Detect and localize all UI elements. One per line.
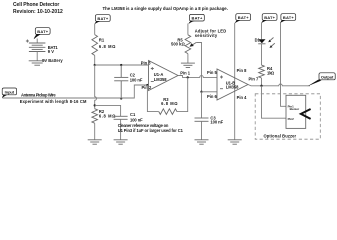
wire node A to Pin 3 — [95, 64, 149, 66]
svg-text:Antenna Pickup Wire: Antenna Pickup Wire — [21, 93, 56, 98]
buzzer BZ1 — [286, 95, 311, 128]
resistor R3 — [159, 109, 177, 115]
ground (C3) — [195, 140, 209, 144]
ground (R5) — [181, 63, 195, 67]
svg-text:1 kΩ: 1 kΩ — [267, 70, 275, 75]
junction C2 top — [120, 64, 122, 66]
svg-text:BAT+: BAT+ — [238, 15, 249, 20]
svg-text:Input: Input — [5, 89, 15, 94]
power flag BAT+ (R5) — [189, 14, 205, 24]
svg-text:LM358: LM358 — [154, 77, 167, 82]
svg-text:Pin 7: Pin 7 — [249, 76, 260, 81]
wire bias column with hop over antenna wire — [95, 65, 97, 109]
svg-text:BAT+: BAT+ — [264, 15, 275, 20]
op-amp U1-B — [217, 69, 248, 100]
R5 wiper arrow — [192, 43, 196, 46]
resistor R4 — [259, 65, 265, 78]
power flag BAT+ (R1) — [95, 15, 111, 25]
dashed box optional buzzer — [255, 94, 320, 139]
svg-text:BAT+: BAT+ — [283, 15, 294, 20]
wire R2 to ground — [94, 123, 96, 140]
node A junction — [94, 64, 96, 66]
junction wiper / Pin 6 — [200, 91, 202, 93]
svg-text:100 nF: 100 nF — [130, 117, 143, 122]
wire output node to buzzer Pin2 — [262, 86, 287, 118]
wire C3 to ground — [201, 121, 203, 140]
wire U1-B output with hop over BAT+ column — [248, 84, 310, 86]
battery plus sign — [26, 40, 29, 43]
svg-text:Output: Output — [321, 74, 334, 79]
svg-text:Buzzer: Buzzer — [290, 107, 300, 111]
svg-text:sensitivity: sensitivity — [195, 33, 218, 38]
wire U1-A output with hop over wiper wire — [178, 76, 217, 78]
svg-text:6.8 MΩ: 6.8 MΩ — [161, 101, 178, 106]
svg-text:100 nF: 100 nF — [210, 120, 223, 125]
wire BAT+ to R1 — [94, 24, 96, 35]
svg-text:D1: D1 — [255, 37, 261, 42]
wire R5 to ground — [187, 54, 189, 64]
wire BAT+ to battery — [36, 39, 38, 44]
wire pin 8 / pin 4 power column — [234, 23, 236, 140]
wire to C3 — [201, 92, 203, 118]
svg-text:R1: R1 — [99, 38, 105, 43]
wire C1 to ground — [120, 119, 122, 140]
wire R1 to node A — [94, 55, 96, 65]
svg-text:6.8 MΩ: 6.8 MΩ — [99, 113, 116, 118]
wire battery to ground — [36, 52, 38, 61]
output flag — [308, 73, 336, 86]
feedback wire right — [177, 77, 188, 111]
wire BAT+ to R5 — [187, 24, 189, 35]
wiper wire to Pin 6 — [196, 43, 201, 92]
ground (battery) — [29, 61, 46, 65]
capacitor C1 — [114, 116, 128, 119]
svg-text:Revision: 10-10-2012: Revision: 10-10-2012 — [13, 9, 63, 15]
LED D1 — [258, 38, 275, 48]
potentiometer R5 — [185, 35, 191, 54]
svg-text:LM358: LM358 — [226, 85, 239, 90]
junction feedback to output — [187, 76, 189, 78]
svg-text:Pin 6: Pin 6 — [207, 94, 218, 99]
svg-text:Pin 5: Pin 5 — [207, 70, 218, 75]
capacitor C2 — [114, 65, 128, 99]
wire BAT+ to D1 — [261, 23, 263, 40]
svg-text:Pin 4: Pin 4 — [237, 95, 248, 100]
svg-text:Pin 1: Pin 1 — [180, 70, 191, 75]
junction feedback tap — [146, 84, 148, 86]
svg-text:BAT+: BAT+ — [192, 16, 203, 21]
svg-text:500 kΩ: 500 kΩ — [171, 41, 186, 46]
power flag BAT+ (U1 pin 8) — [235, 14, 251, 24]
svg-text:Cell Phone Detector: Cell Phone Detector — [13, 2, 59, 8]
ground (R2) — [88, 140, 102, 144]
svg-text:Pin2: Pin2 — [288, 117, 294, 121]
wire BAT+ to buzzer Pin1 — [281, 23, 287, 107]
ground (C1) — [114, 140, 128, 144]
svg-text:Pin 8: Pin 8 — [237, 68, 248, 73]
power flag BAT+ (buzzer) — [280, 14, 296, 24]
junction C1 branch — [94, 104, 96, 106]
input flag — [2, 88, 17, 98]
wire Pin 6 into U1-B — [202, 91, 218, 93]
svg-text:9V Battery: 9V Battery — [42, 58, 63, 63]
feedback wire left — [147, 85, 158, 112]
antenna wire — [3, 85, 149, 98]
svg-text:BAT+: BAT+ — [97, 16, 108, 21]
capacitor C3 — [195, 118, 209, 121]
wire D1 to R4 — [261, 44, 263, 65]
svg-text:C1: C1 — [130, 112, 136, 117]
wire R4 to output node — [261, 78, 263, 86]
svg-text:9 V: 9 V — [48, 49, 54, 54]
svg-text:6.8 MΩ: 6.8 MΩ — [99, 44, 116, 49]
resistor R1 — [92, 35, 98, 56]
ground (U1 pin 4) — [228, 140, 242, 144]
junction output / R4 — [260, 85, 262, 87]
power flag BAT+ (battery) — [34, 28, 50, 40]
resistor R2 — [92, 109, 98, 124]
svg-text:Experiment with length 8-16 CM: Experiment with length 8-16 CM — [20, 99, 87, 104]
op-amp U1-A — [149, 61, 179, 91]
svg-text:BAT+: BAT+ — [37, 29, 48, 34]
svg-text:The LM358 is a single supply d: The LM358 is a single supply dual OpAmp … — [103, 6, 228, 11]
svg-text:Optional Buzzer: Optional Buzzer — [264, 133, 297, 138]
wire node to C1 — [95, 105, 121, 116]
battery BAT1 9V — [29, 43, 46, 52]
svg-text:U1 Pin3 if 1uF or larger used: U1 Pin3 if 1uF or larger used for C1 — [118, 128, 184, 133]
power flag BAT+ (D1) — [261, 14, 277, 24]
svg-text:100 nF: 100 nF — [130, 78, 143, 83]
junction C2 bottom — [120, 97, 122, 99]
